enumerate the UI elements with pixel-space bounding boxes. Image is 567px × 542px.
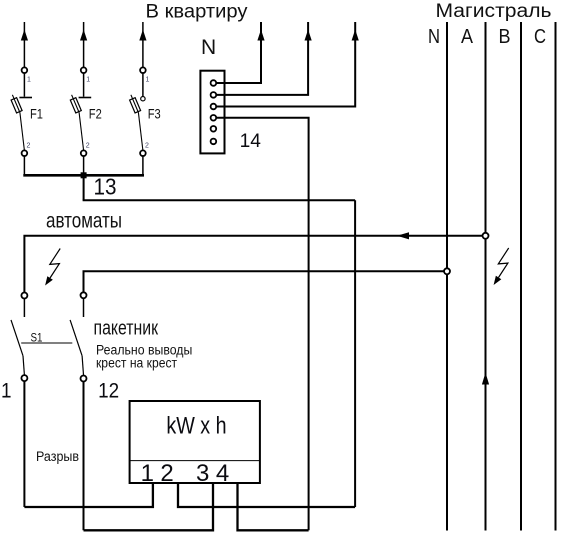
terminal 3 of block bbox=[211, 104, 217, 110]
switch S1 pole 1 bbox=[11, 293, 27, 382]
terminal 4 of block bbox=[211, 115, 217, 121]
svg-text:N: N bbox=[428, 26, 440, 48]
svg-text:1: 1 bbox=[1, 380, 12, 403]
svg-text:В квартиру: В квартиру bbox=[146, 2, 249, 23]
wire: S1 pole2 down leg bbox=[83, 382, 85, 531]
arrow up at x261 bbox=[257, 30, 264, 41]
junction at F2 output bbox=[81, 172, 87, 178]
svg-text:пакетник: пакетник bbox=[94, 317, 159, 339]
wire: block terminal 2 to apartment arrow bbox=[216, 22, 308, 95]
svg-text:3: 3 bbox=[196, 460, 209, 487]
svg-text:1: 1 bbox=[141, 460, 154, 487]
wire: vertical drop x355 to meter terminal 2 line bbox=[354, 200, 356, 507]
switch S1 pole 2 bbox=[70, 292, 86, 381]
svg-text:1: 1 bbox=[27, 77, 31, 84]
svg-text:14: 14 bbox=[240, 131, 262, 152]
wire: bus B vertical bbox=[520, 22, 522, 531]
mechanical link of S1 poles bbox=[21, 342, 72, 344]
svg-text:F3: F3 bbox=[148, 106, 161, 122]
wire: node 13 horizontal run to meter bbox=[83, 199, 356, 201]
svg-text:13: 13 bbox=[94, 174, 117, 200]
arrow left on tap wire bbox=[397, 232, 409, 239]
wire: pole2 to meter terminal 3 bbox=[84, 483, 214, 530]
wire: junction down leg bbox=[83, 175, 85, 200]
svg-text:1: 1 bbox=[146, 77, 150, 84]
wire: block terminal 3 to apartment arrow bbox=[216, 22, 355, 107]
svg-text:Магистраль: Магистраль bbox=[436, 1, 552, 22]
lightning strike symbol near bus B bbox=[494, 248, 509, 285]
wire: tap from bus N to switch pole 2 bbox=[84, 271, 448, 292]
svg-text:крест на крест: крест на крест bbox=[96, 356, 177, 371]
arrow up at x355 bbox=[352, 30, 359, 41]
breaker F2 bbox=[70, 22, 91, 175]
arrow up at x308 bbox=[305, 30, 312, 41]
svg-text:2: 2 bbox=[160, 460, 173, 487]
wire: bus C vertical bbox=[555, 22, 557, 531]
svg-text:C: C bbox=[534, 26, 546, 48]
wire: bus N vertical bbox=[446, 22, 448, 531]
svg-text:12: 12 bbox=[98, 380, 119, 403]
svg-text:4: 4 bbox=[216, 460, 229, 487]
wire: bus A vertical bbox=[485, 22, 487, 531]
svg-text:kW x h: kW x h bbox=[166, 412, 226, 439]
breaker F3 bbox=[130, 22, 147, 175]
svg-text:2: 2 bbox=[27, 143, 31, 150]
meter terminals divider bbox=[130, 460, 260, 462]
svg-text:автоматы: автоматы bbox=[46, 209, 122, 232]
terminal 5 of block bbox=[211, 126, 217, 132]
terminal 6 of block bbox=[211, 139, 217, 145]
terminal 1 of block bbox=[211, 80, 217, 86]
wire: block terminal 4 down to meter terminal 4 bbox=[216, 118, 308, 531]
svg-text:2: 2 bbox=[86, 143, 90, 150]
svg-text:Разрыв: Разрыв bbox=[36, 449, 79, 464]
wire: meter terminal 4 to block drop bbox=[238, 483, 309, 530]
arrow up on bus A bbox=[482, 373, 489, 385]
wire: pole1 to meter terminal 1 bbox=[24, 483, 153, 507]
svg-text:1: 1 bbox=[86, 77, 90, 84]
terminal block X1 (item 14) bbox=[200, 71, 224, 154]
lightning strike symbol near switch bbox=[45, 249, 60, 286]
svg-text:N: N bbox=[201, 36, 216, 59]
wire: block terminal 1 to apartment arrow bbox=[216, 22, 261, 83]
wire: tap from bus A to switch pole 1 (with direction arrow) bbox=[24, 236, 485, 293]
breaker F1 bbox=[11, 22, 32, 175]
meter kWh (PI1) bbox=[130, 401, 260, 483]
svg-text:F2: F2 bbox=[89, 106, 102, 122]
svg-text:A: A bbox=[461, 26, 474, 48]
wire: breaker output bus (node 13) bbox=[23, 174, 144, 177]
wire: meter terminal 2 to x355 drop bbox=[178, 483, 355, 507]
terminal 2 of block bbox=[211, 92, 217, 98]
wire: S1 pole1 down leg bbox=[23, 381, 25, 507]
junction circle on bus N bbox=[444, 268, 450, 274]
junction circle on bus A bbox=[483, 233, 489, 239]
svg-text:F1: F1 bbox=[30, 106, 43, 122]
svg-text:2: 2 bbox=[145, 143, 149, 150]
svg-text:B: B bbox=[499, 26, 511, 48]
svg-text:S1: S1 bbox=[31, 331, 43, 345]
